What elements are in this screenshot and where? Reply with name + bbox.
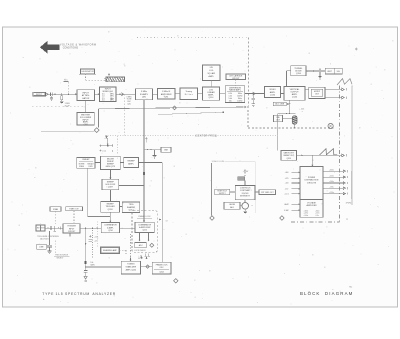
svg-text:6.3AC: 6.3AC — [284, 209, 289, 212]
svg-text:& AMPLIFIER: & AMPLIFIER — [139, 226, 151, 229]
svg-text:+100v: +100v — [329, 181, 334, 183]
svg-text:AMPL: AMPL — [128, 162, 134, 165]
svg-text:GAIN: GAIN — [90, 264, 95, 267]
svg-text:GEOM: GEOM — [229, 204, 235, 206]
svg-text:INT: INT — [37, 228, 40, 230]
svg-text:TRIG SOURCE: TRIG SOURCE — [55, 255, 69, 257]
svg-text:DIAGRAM: DIAGRAM — [325, 291, 354, 296]
svg-text:-150v: -150v — [329, 186, 333, 188]
svg-text:ADJ R321: ADJ R321 — [40, 237, 48, 240]
svg-text:+100: +100 — [285, 183, 289, 185]
svg-text:ACC LINE: ACC LINE — [275, 103, 284, 106]
svg-text:SQ LAW: SQ LAW — [207, 72, 215, 75]
svg-text:RANGE AMPL: RANGE AMPL — [229, 89, 241, 92]
svg-text:~: ~ — [251, 204, 253, 208]
svg-text:COMPARATOR: COMPARATOR — [138, 223, 152, 226]
svg-text:COMPARATOR: COMPARATOR — [104, 224, 117, 227]
svg-text:6.3v: 6.3v — [316, 215, 319, 217]
svg-text:SPECTRUM: SPECTRUM — [65, 292, 90, 296]
svg-text:VOLTAGE: VOLTAGE — [307, 201, 316, 204]
svg-text:PHASE LOCK: PHASE LOCK — [138, 215, 151, 218]
svg-text:CONTRAST: CONTRAST — [240, 189, 251, 192]
svg-text:OSC: OSC — [160, 267, 165, 269]
svg-text:ADJ: ADJ — [139, 244, 143, 247]
svg-text:TRIGGER: TRIGGER — [67, 226, 76, 228]
svg-text:RUN: RUN — [89, 166, 94, 168]
svg-text:ATTEN-: ATTEN- — [82, 94, 90, 97]
svg-text:+12v: +12v — [94, 236, 98, 238]
svg-text:3 MHz: 3 MHz — [141, 91, 147, 93]
svg-text:AMPL: AMPL — [209, 75, 215, 78]
svg-text:CONTROLS: CONTROLS — [240, 187, 251, 189]
svg-text:GEN Q173: GEN Q173 — [106, 166, 115, 168]
svg-text:HEAT: HEAT — [284, 203, 288, 206]
svg-text:ADJ: ADJ — [230, 206, 234, 209]
svg-text:-12v: -12v — [94, 241, 98, 243]
svg-text:CIRCUITS: CIRCUITS — [307, 183, 317, 185]
svg-text:UATOR: UATOR — [82, 97, 90, 100]
svg-text:FREE: FREE — [79, 166, 85, 168]
svg-text:LOG: LOG — [209, 70, 214, 72]
svg-text:INPUT: INPUT — [82, 92, 89, 94]
svg-text:FOCUS: FOCUS — [242, 193, 249, 195]
svg-text:+12.6: +12.6 — [284, 193, 288, 195]
svg-text:+225v: +225v — [329, 175, 334, 177]
svg-text:CIRCUIT: CIRCUIT — [232, 78, 240, 80]
svg-text:BLANKING AMP: BLANKING AMP — [103, 249, 117, 252]
svg-text:SUPPLY: SUPPLY — [219, 193, 227, 195]
svg-text:IF AMPL: IF AMPL — [140, 93, 149, 96]
svg-text:AMPLIFIER: AMPLIFIER — [307, 204, 318, 207]
svg-text:(CENTER FREQ): (CENTER FREQ) — [195, 136, 218, 138]
svg-text:Q134: Q134 — [270, 94, 276, 96]
svg-text:AMPL Q244: AMPL Q244 — [126, 268, 136, 271]
svg-text:SCALE ILLUM: SCALE ILLUM — [212, 160, 225, 163]
svg-text:SWEEP: SWEEP — [127, 160, 135, 162]
svg-text:+5v: +5v — [104, 138, 107, 140]
svg-text:Tuning: Tuning — [185, 91, 192, 93]
svg-text:CRT GRID CKT: CRT GRID CKT — [261, 192, 275, 194]
svg-text:TUNING: TUNING — [127, 264, 135, 266]
svg-text:F i l t e r: F i l t e r — [185, 93, 193, 96]
svg-text:SELECT: SELECT — [57, 258, 65, 260]
svg-text:INTENSITY: INTENSITY — [240, 196, 251, 198]
svg-text:ANALYZER: ANALYZER — [92, 292, 116, 296]
svg-text:AMPLIFIER: AMPLIFIER — [161, 93, 172, 96]
svg-text:Q234: Q234 — [108, 230, 112, 232]
svg-text:(.5v): (.5v) — [102, 151, 106, 153]
svg-text:BLÖCK: BLÖCK — [300, 291, 320, 296]
svg-text:STAB: STAB — [53, 208, 59, 211]
svg-text:15k: 15k — [229, 101, 232, 103]
svg-text:SWEEP: SWEEP — [82, 159, 90, 161]
svg-text:& AMPL: & AMPL — [107, 226, 114, 229]
svg-text:Q225: Q225 — [142, 230, 147, 232]
svg-text:EXT: EXT — [41, 228, 44, 230]
svg-text:AMPL: AMPL — [270, 91, 276, 94]
svg-text:LINE: LINE — [39, 246, 44, 248]
svg-text:·: · — [202, 291, 203, 295]
svg-text:+100v: +100v — [303, 215, 308, 217]
svg-text:STABILIZER: STABILIZER — [125, 266, 136, 269]
svg-text:+3500: +3500 — [243, 171, 248, 173]
svg-text:SAWTOOTH: SAWTOOTH — [284, 152, 295, 155]
svg-text:VOLTAGE & WAVEFORM: VOLTAGE & WAVEFORM — [60, 43, 97, 46]
svg-text:LOCK CHECK: LOCK CHECK — [134, 250, 146, 252]
svg-text:MHz: MHz — [110, 100, 114, 102]
svg-text:DISTRIBUTION: DISTRIBUTION — [305, 180, 319, 182]
svg-text:INPUT: INPUT — [36, 94, 43, 96]
svg-text:10kHz: 10kHz — [237, 101, 242, 103]
svg-text:N C: N C — [64, 80, 68, 82]
svg-text:+300v: +300v — [329, 169, 334, 171]
svg-text:Q203: Q203 — [108, 209, 114, 211]
svg-text:+12.6v: +12.6v — [329, 192, 334, 194]
svg-text:1L5: 1L5 — [56, 292, 64, 296]
svg-text:SYNC: SYNC — [138, 258, 144, 260]
svg-text:-150: -150 — [285, 189, 288, 191]
svg-text:+300: +300 — [285, 172, 289, 174]
svg-text:Q264: Q264 — [159, 272, 163, 274]
svg-text:CALIBRATOR: CALIBRATOR — [81, 70, 95, 73]
svg-text:SHAPER: SHAPER — [127, 206, 136, 209]
svg-text:5.0: 5.0 — [102, 100, 105, 102]
svg-text:INPUT: INPUT — [69, 228, 75, 230]
svg-text:Q310: Q310 — [286, 158, 290, 160]
svg-text:TIME / DIV: TIME / DIV — [69, 209, 79, 211]
svg-text:TYPE: TYPE — [42, 292, 54, 296]
svg-text:VAR: VAR — [164, 149, 169, 152]
svg-text:20 pF: 20 pF — [64, 105, 70, 107]
svg-text:CONDITIONS: CONDITIONS — [63, 48, 79, 50]
svg-text:CIRCUIT: CIRCUIT — [68, 231, 76, 233]
svg-text:Q40: Q40 — [127, 103, 131, 105]
svg-text:+225: +225 — [285, 178, 289, 180]
svg-text:POWER: POWER — [308, 177, 316, 179]
svg-text:(PWR): (PWR) — [346, 203, 352, 205]
